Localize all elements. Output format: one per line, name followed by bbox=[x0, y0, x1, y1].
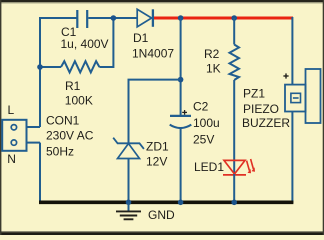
wire R2 upper lead bbox=[233, 18, 235, 45]
svg-text:25V: 25V bbox=[193, 133, 214, 147]
wire C2 branch upper bbox=[180, 18, 182, 116]
svg-text:PIEZO: PIEZO bbox=[243, 102, 279, 116]
resistor R1 bbox=[61, 61, 99, 72]
svg-text:50Hz: 50Hz bbox=[46, 145, 74, 159]
zener diode ZD1 bbox=[113, 138, 144, 159]
node junction red rail to C2/ZD1 branch bbox=[178, 15, 184, 21]
svg-text:100K: 100K bbox=[65, 94, 93, 108]
svg-text:L: L bbox=[8, 103, 15, 117]
svg-text:1K: 1K bbox=[206, 62, 221, 76]
wire DC+ red rail bbox=[154, 17, 293, 20]
wire ground rail bbox=[39, 201, 293, 205]
buzzer plus sign bbox=[283, 73, 288, 78]
svg-text:GND: GND bbox=[148, 208, 175, 222]
node junction ZD1 on ground rail bbox=[126, 200, 132, 206]
wire left vertical (L line from top rail to CON1 upper stub) bbox=[40, 18, 77, 127]
svg-text:BUZZER: BUZZER bbox=[242, 116, 290, 130]
svg-text:12V: 12V bbox=[146, 155, 167, 169]
capacitor C2 bbox=[170, 116, 192, 128]
wire CON1 lower stub bbox=[27, 142, 41, 144]
wire R1 right lead up to top node bbox=[99, 18, 113, 67]
node junction LED1 on ground rail bbox=[231, 200, 237, 206]
ground symbol bbox=[116, 211, 141, 219]
svg-text:ZD1: ZD1 bbox=[146, 140, 169, 154]
svg-text:PZ1: PZ1 bbox=[243, 87, 265, 101]
svg-text:R1: R1 bbox=[65, 79, 81, 93]
svg-text:N: N bbox=[7, 152, 16, 166]
svg-text:CON1: CON1 bbox=[46, 114, 80, 128]
node junction red rail to R2 branch bbox=[231, 15, 237, 21]
svg-text:D1: D1 bbox=[133, 31, 149, 45]
wire ZD1 anode to ground rail bbox=[128, 159, 130, 204]
wire R2 to LED1 bbox=[233, 80, 235, 174]
wire ground stub bbox=[128, 202, 130, 211]
wire N line down to ground rail bbox=[39, 143, 41, 203]
node junction C2 on ground rail bbox=[178, 200, 184, 206]
capacitor C1 bbox=[77, 10, 87, 28]
node junction C1/R1/D1 bbox=[111, 15, 117, 21]
svg-text:C2: C2 bbox=[193, 100, 209, 114]
wire R1 left lead bbox=[40, 66, 61, 68]
wire LED1 cathode to ground rail bbox=[233, 174, 235, 203]
node junction ZD1 split bbox=[178, 77, 184, 83]
resistor R2 bbox=[230, 45, 240, 81]
svg-text:R2: R2 bbox=[204, 47, 220, 61]
svg-text:1N4007: 1N4007 bbox=[132, 47, 174, 61]
diode D1 bbox=[137, 9, 153, 27]
piezo buzzer PZ1 bbox=[285, 69, 321, 123]
svg-text:100u: 100u bbox=[193, 116, 220, 130]
svg-text:1u, 400V: 1u, 400V bbox=[61, 37, 109, 51]
node junction R1 left on L line bbox=[37, 64, 43, 70]
wire ZD1 horizontal branch bbox=[129, 80, 181, 144]
wire C2 negative lead to ground rail bbox=[180, 128, 182, 203]
wire buzzer branch from red rail bbox=[291, 17, 293, 85]
wire CON1 upper stub bbox=[27, 126, 41, 128]
svg-text:230V AC: 230V AC bbox=[46, 129, 94, 143]
connector CON1 bbox=[2, 120, 26, 151]
wire C1 right plate to D1 anode bbox=[88, 17, 137, 19]
capacitor C2 plus sign bbox=[182, 110, 187, 115]
wire buzzer to ground rail bbox=[291, 112, 293, 204]
svg-text:LED1: LED1 bbox=[194, 160, 224, 174]
LED LED1 bbox=[223, 159, 255, 175]
